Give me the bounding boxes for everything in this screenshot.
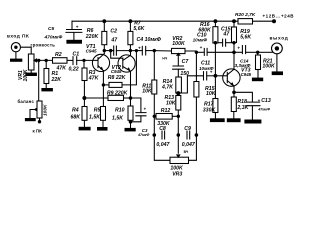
- svg-text:+: +: [210, 69, 213, 74]
- svg-text:100K: 100K: [23, 69, 29, 81]
- svg-text:0,047: 0,047: [156, 142, 170, 148]
- svg-text:1,5K: 1,5K: [112, 115, 124, 121]
- svg-text:ВЧ: ВЧ: [184, 150, 189, 154]
- svg-text:R10: R10: [115, 107, 125, 113]
- svg-text:C945: C945: [241, 72, 252, 77]
- svg-text:громкость: громкость: [31, 42, 56, 47]
- svg-text:C2: C2: [110, 29, 117, 35]
- svg-text:5,6K: 5,6K: [133, 26, 145, 32]
- svg-text:47мкФ: 47мкФ: [137, 133, 149, 137]
- svg-text:R8 22K: R8 22K: [108, 75, 127, 81]
- svg-text:+: +: [76, 26, 79, 31]
- svg-text:C945: C945: [86, 49, 97, 54]
- svg-text:220K: 220K: [85, 34, 100, 40]
- svg-text:10мкФ: 10мкФ: [193, 38, 208, 43]
- svg-text:0,047: 0,047: [182, 142, 196, 148]
- svg-text:+: +: [258, 98, 261, 103]
- svg-text:4,7K: 4,7K: [161, 85, 174, 91]
- svg-text:C7: C7: [182, 59, 190, 65]
- svg-text:баланс: баланс: [18, 99, 35, 104]
- svg-text:22K: 22K: [51, 77, 63, 83]
- svg-text:150: 150: [180, 71, 189, 77]
- svg-text:R20 2,7K: R20 2,7K: [235, 12, 256, 18]
- svg-text:47: 47: [222, 32, 230, 38]
- svg-text:100K: 100K: [172, 41, 186, 47]
- svg-text:5,6K: 5,6K: [240, 34, 252, 40]
- svg-text:+: +: [237, 46, 240, 51]
- svg-text:68K: 68K: [71, 114, 82, 120]
- svg-text:2,3K: 2,3K: [236, 105, 249, 111]
- svg-text:10K: 10K: [142, 89, 153, 95]
- svg-text:R9 220K: R9 220K: [107, 90, 129, 96]
- svg-text:10K: 10K: [206, 91, 217, 97]
- svg-text:100K: 100K: [42, 104, 48, 116]
- svg-text:R12: R12: [161, 108, 171, 114]
- svg-text:47: 47: [110, 37, 118, 43]
- svg-text:C9: C9: [184, 126, 191, 132]
- svg-text:10K: 10K: [166, 101, 177, 107]
- svg-text:3,3мкФ: 3,3мкФ: [235, 63, 251, 68]
- svg-text:0,22: 0,22: [69, 67, 79, 73]
- svg-text:+12В...+24В: +12В...+24В: [263, 14, 295, 19]
- svg-text:470мкФ: 470мкФ: [44, 35, 63, 41]
- svg-text:НЧ: НЧ: [162, 56, 167, 60]
- svg-text:100K: 100K: [262, 64, 276, 70]
- svg-text:к ПК: к ПК: [33, 128, 43, 133]
- svg-text:C1: C1: [73, 51, 80, 57]
- svg-text:C5: C5: [48, 26, 54, 32]
- svg-text:1,5K: 1,5K: [89, 115, 101, 121]
- svg-text:+: +: [144, 106, 147, 111]
- svg-text:+: +: [200, 45, 203, 50]
- svg-text:C945: C945: [111, 69, 122, 74]
- svg-text:R5: R5: [94, 108, 101, 114]
- svg-text:R4: R4: [72, 108, 79, 114]
- svg-text:R2: R2: [55, 52, 62, 58]
- svg-text:C13: C13: [261, 98, 271, 104]
- svg-text:C4 10мкФ: C4 10мкФ: [137, 37, 162, 43]
- svg-text:VR3: VR3: [172, 172, 182, 178]
- svg-text:C8: C8: [159, 126, 166, 132]
- svg-text:330K: 330K: [203, 107, 217, 113]
- svg-text:+: +: [138, 45, 141, 50]
- svg-text:вход ПК: вход ПК: [7, 34, 29, 40]
- svg-text:47K: 47K: [88, 76, 100, 82]
- svg-text:выход: выход: [270, 37, 289, 42]
- svg-text:47мкФ: 47мкФ: [257, 108, 270, 112]
